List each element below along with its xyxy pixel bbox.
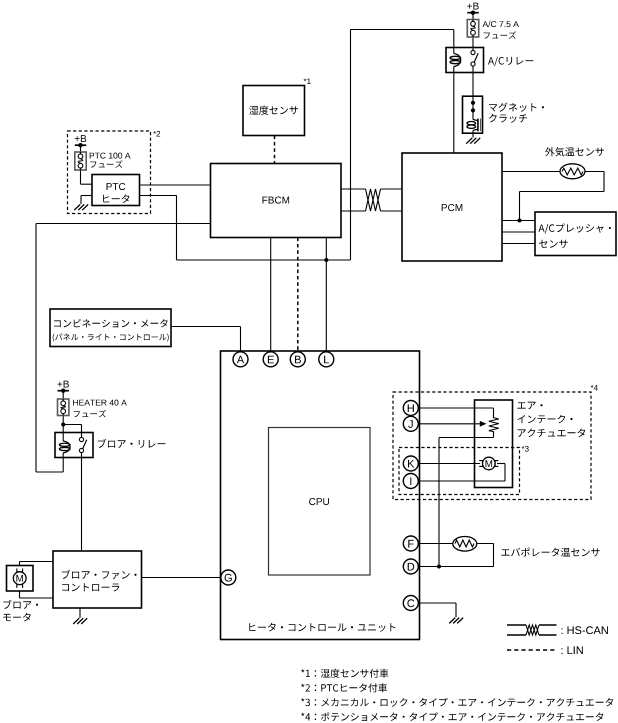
- terminal I: [403, 474, 418, 489]
- label CPU: [309, 498, 329, 505]
- A/C pressure sensor box: [535, 212, 616, 256]
- label FBCM: [263, 197, 290, 204]
- junction dot HEATER fuse node: [61, 423, 65, 427]
- outside air temp sensor: [560, 164, 585, 179]
- label fuse JP (A/C): [484, 31, 516, 39]
- terminal D: [403, 559, 418, 574]
- wire combination meter to terminal A: [171, 326, 241, 328]
- PCM box: [402, 153, 502, 261]
- wire FBCM/L net vertical: [325, 238, 327, 352]
- air intake actuator box: [475, 400, 513, 488]
- terminal A: [233, 352, 248, 367]
- fuse A/C 7.5 A: [467, 20, 478, 38]
- label *4: [591, 385, 598, 391]
- label PCM: [442, 204, 463, 211]
- label *3: [522, 446, 529, 452]
- legend LIN text: [562, 646, 583, 654]
- +B supply PTC: [75, 135, 87, 142]
- footnote *3: [301, 698, 613, 707]
- label humidity sensor: [249, 106, 298, 115]
- wire magnet clutch to ground: [472, 133, 474, 137]
- ground PTC heater: [74, 204, 88, 210]
- fuse HEATER 40 A: [58, 399, 69, 416]
- wire blower relay switch to controller: [81, 453, 83, 552]
- label blower relay: [98, 439, 166, 448]
- footnote *2: [301, 683, 387, 692]
- wire temp sensor return: [585, 171, 604, 173]
- wire +B to PTC fuse: [80, 146, 82, 152]
- terminal B: [290, 352, 305, 367]
- wire LIN FBCM to terminal B: [297, 238, 299, 352]
- wire A/C relay coil to PCM: [453, 30, 455, 54]
- blower relay coil: [63, 441, 70, 453]
- label blower motor: [3, 600, 38, 609]
- wire terminal I to actuator motor: [420, 480, 506, 482]
- A/C relay coil: [454, 54, 461, 67]
- label blower fan controller: [62, 570, 137, 579]
- terminal L: [319, 352, 334, 367]
- legend LIN symbol: [507, 649, 557, 651]
- ground blower fan controller: [73, 618, 87, 624]
- label A/C pressure sensor: [539, 224, 611, 234]
- blower fan controller box: [53, 551, 142, 608]
- junction dot pot/evap D net: [437, 565, 441, 569]
- magnet clutch internals: [472, 96, 474, 119]
- wire +B to A/C fuse: [472, 14, 474, 20]
- junction dot L net: [324, 258, 328, 262]
- label *2: [153, 131, 160, 137]
- wire blower motor return: [19, 591, 21, 598]
- wire PTC heater lower to L net: [140, 195, 177, 197]
- blower relay box: [55, 433, 93, 458]
- wire +B to HEATER fuse: [62, 391, 64, 400]
- label PTC 100 A: [90, 153, 131, 159]
- label magnet clutch: [489, 103, 544, 112]
- wire LIN humidity sensor to FBCM: [274, 136, 276, 164]
- magnet clutch box: [463, 96, 483, 133]
- wire PTC heater to ground: [81, 195, 92, 197]
- CPU box: [269, 428, 371, 576]
- footnote *4: [301, 712, 603, 721]
- blower motor M: [13, 572, 26, 585]
- legend HS-CAN text: [562, 626, 608, 634]
- wire HS-CAN pair FBCM-PCM: [341, 188, 366, 190]
- +B supply A/C: [467, 3, 479, 10]
- blower motor box: [7, 566, 34, 592]
- junction dot temp/pressure common: [518, 219, 522, 223]
- heater control unit box: [221, 351, 420, 640]
- label *1: [304, 79, 311, 85]
- wire controller to terminal G: [142, 577, 221, 579]
- footnote *1: [301, 669, 388, 678]
- label HEATER 40 A: [73, 400, 127, 406]
- wire A/C relay coil to L net: [351, 29, 454, 31]
- FBCM box: [211, 164, 342, 238]
- legend HS-CAN symbol: [507, 624, 526, 626]
- label A/C 7.5 A: [483, 21, 519, 27]
- label heater control unit: [249, 623, 395, 632]
- wire terminal H to potentiometer top: [420, 407, 494, 409]
- dashed option box *4 (potentiometer type): [393, 392, 591, 500]
- wire HEATER fuse to blower relay: [62, 416, 64, 442]
- dashed option box *3 (mechanical lock type): [399, 448, 520, 495]
- label air intake actuator: [517, 402, 542, 410]
- wire terminal F to evaporator temp sensor: [420, 543, 455, 545]
- wire terminal C to ground: [420, 602, 457, 604]
- terminal G: [221, 570, 236, 585]
- PTC heater box: [92, 175, 140, 206]
- wire PCM to A/C pressure sensor: [502, 220, 535, 222]
- label outside air temp sensor: [545, 147, 604, 156]
- A/C relay switch: [471, 50, 475, 54]
- wire FBCM to terminal E: [270, 238, 272, 352]
- wire terminal J wiper arrow: [420, 423, 482, 425]
- wire A/C fuse to relay switch: [472, 37, 474, 51]
- evaporator temp sensor: [453, 537, 477, 552]
- wire fuse node to relay switch: [63, 424, 81, 426]
- terminal E: [263, 352, 278, 367]
- terminal K: [403, 456, 418, 471]
- label A/C relay: [488, 57, 533, 67]
- blower relay switch: [79, 437, 83, 441]
- label combination meter: [54, 319, 168, 328]
- wire FBCM to blower relay coil: [36, 223, 211, 225]
- wire blower motor feed: [19, 562, 21, 566]
- wire PTC fuse to PTC heater: [80, 170, 82, 184]
- label fuse JP (HEATER): [74, 410, 106, 418]
- ground terminal C: [449, 618, 463, 624]
- wire A/C relay switch to magnet clutch: [472, 66, 474, 96]
- fuse PTC 100 A: [75, 152, 86, 170]
- label evaporator temp sensor: [501, 548, 599, 557]
- label fuse JP (PTC): [90, 160, 122, 168]
- +B supply HEATER: [57, 381, 69, 388]
- combination meter box: [50, 309, 171, 347]
- A/C relay box: [446, 48, 484, 73]
- actuator potentiometer: [489, 418, 499, 432]
- terminal H: [403, 401, 418, 416]
- actuator motor M: [483, 457, 496, 470]
- humidity sensor box: [243, 86, 305, 136]
- terminal J: [403, 416, 418, 431]
- label PTC heater: [107, 183, 126, 190]
- terminal C: [403, 596, 418, 611]
- terminal F: [403, 536, 418, 551]
- wire PTC heater to FBCM: [140, 184, 211, 186]
- wire PCM to outside-air-temp sensor: [502, 171, 560, 173]
- wire controller ground: [79, 608, 81, 618]
- wire terminal K to actuator motor: [420, 463, 481, 465]
- dashed option box *2 (PTC heater): [68, 131, 151, 214]
- ground magnet clutch: [466, 138, 480, 144]
- wire potentiometer bottom to D net: [493, 431, 495, 437]
- wire evaporator sensor to terminal D: [477, 543, 494, 545]
